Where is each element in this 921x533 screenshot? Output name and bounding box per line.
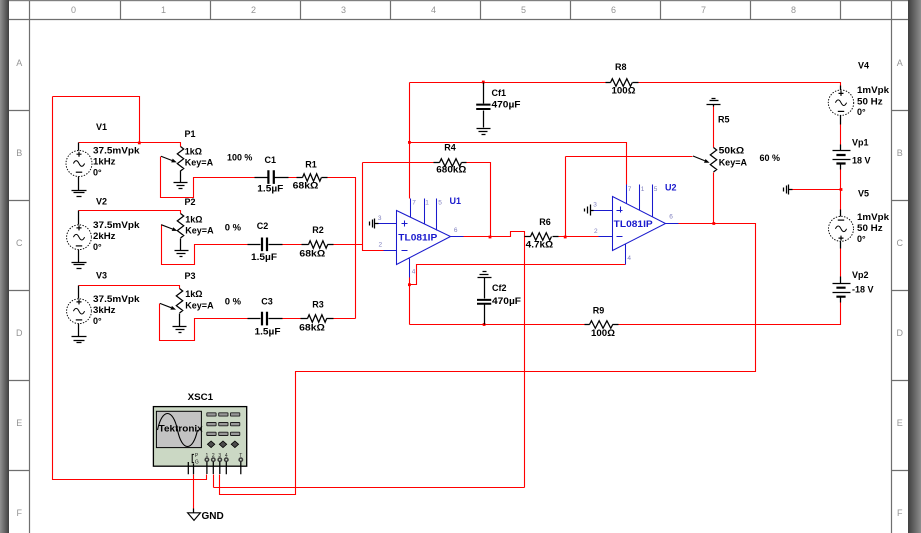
svg-text:470µF: 470µF (492, 296, 522, 306)
svg-text:100 %: 100 % (227, 152, 252, 162)
svg-text:4: 4 (225, 453, 228, 459)
svg-text:R3: R3 (312, 300, 324, 310)
svg-text:7: 7 (412, 199, 416, 206)
svg-text:60 %: 60 % (760, 153, 781, 163)
svg-text:A: A (16, 58, 22, 68)
svg-text:37.5mVpk: 37.5mVpk (93, 146, 141, 156)
svg-text:37.5mVpk: 37.5mVpk (93, 220, 141, 230)
svg-text:5: 5 (521, 5, 526, 15)
svg-text:C3: C3 (261, 296, 273, 306)
svg-text:C1: C1 (265, 155, 277, 165)
svg-text:TL081IP: TL081IP (398, 232, 437, 242)
svg-text:Vp2: Vp2 (852, 270, 869, 280)
svg-text:F: F (897, 508, 903, 518)
svg-text:0°: 0° (93, 316, 102, 326)
svg-text:E: E (16, 418, 22, 428)
svg-text:2kHz: 2kHz (93, 231, 116, 241)
svg-text:68kΩ: 68kΩ (299, 248, 325, 258)
svg-text:4: 4 (412, 268, 416, 275)
svg-text:3: 3 (593, 201, 597, 208)
svg-text:1kΩ: 1kΩ (185, 147, 202, 157)
svg-text:R4: R4 (444, 143, 456, 153)
svg-text:5: 5 (654, 186, 658, 193)
svg-text:1kΩ: 1kΩ (185, 214, 202, 224)
svg-text:D: D (16, 328, 23, 338)
svg-text:TL081IP: TL081IP (614, 219, 653, 229)
svg-text:U2: U2 (665, 183, 677, 193)
svg-text:0 %: 0 % (225, 297, 241, 307)
svg-text:3: 3 (341, 5, 346, 15)
svg-text:1: 1 (425, 199, 429, 206)
svg-text:1.5µF: 1.5µF (257, 184, 284, 194)
svg-text:Key=A: Key=A (719, 158, 748, 168)
svg-text:P2: P2 (185, 197, 196, 207)
svg-text:V4: V4 (858, 61, 869, 71)
svg-text:1.5µF: 1.5µF (251, 252, 278, 262)
svg-text:68kΩ: 68kΩ (299, 322, 325, 332)
svg-text:R6: R6 (539, 217, 551, 227)
svg-text:7: 7 (628, 186, 632, 193)
svg-text:D: D (897, 328, 904, 338)
svg-text:R1: R1 (305, 160, 317, 170)
svg-text:R5: R5 (718, 115, 730, 125)
svg-text:R8: R8 (615, 62, 627, 72)
svg-text:6: 6 (669, 214, 673, 221)
svg-text:3: 3 (378, 215, 382, 222)
svg-text:50kΩ: 50kΩ (719, 145, 745, 155)
svg-text:U1: U1 (450, 196, 462, 206)
svg-text:Key=A: Key=A (185, 300, 214, 310)
svg-text:2: 2 (379, 242, 383, 249)
svg-text:V3: V3 (96, 271, 107, 281)
svg-text:C: C (897, 238, 904, 248)
svg-text:7: 7 (701, 5, 706, 15)
svg-text:1: 1 (641, 186, 645, 193)
svg-text:1mVpk: 1mVpk (857, 212, 890, 222)
svg-text:XSC1: XSC1 (188, 392, 214, 402)
svg-text:V5: V5 (858, 188, 869, 198)
svg-text:GND: GND (202, 511, 224, 522)
svg-text:Key=A: Key=A (185, 158, 214, 168)
svg-text:8: 8 (791, 5, 796, 15)
svg-text:0°: 0° (857, 234, 866, 244)
svg-text:0°: 0° (93, 242, 102, 252)
svg-text:3kHz: 3kHz (93, 305, 116, 315)
svg-text:68kΩ: 68kΩ (293, 180, 319, 190)
svg-text:1: 1 (206, 453, 209, 459)
svg-text:V1: V1 (96, 122, 107, 132)
svg-text:1mVpk: 1mVpk (857, 85, 890, 95)
svg-text:18 V: 18 V (852, 156, 871, 166)
svg-text:Cf2: Cf2 (492, 283, 507, 293)
svg-text:2: 2 (212, 453, 215, 459)
svg-text:1.5µF: 1.5µF (255, 326, 282, 336)
svg-text:Tektronix: Tektronix (159, 424, 204, 434)
svg-text:P1: P1 (185, 129, 196, 139)
svg-text:1: 1 (161, 5, 166, 15)
svg-text:R9: R9 (593, 305, 605, 315)
svg-text:1kHz: 1kHz (93, 157, 116, 167)
svg-text:1kΩ: 1kΩ (185, 289, 202, 299)
svg-text:4: 4 (431, 5, 436, 15)
svg-text:680kΩ: 680kΩ (436, 164, 466, 174)
svg-text:100Ω: 100Ω (591, 328, 615, 338)
svg-text:37.5mVpk: 37.5mVpk (93, 294, 141, 304)
svg-text:E: E (897, 418, 903, 428)
svg-text:2: 2 (251, 5, 256, 15)
svg-text:5: 5 (438, 199, 442, 206)
svg-text:Cf1: Cf1 (492, 88, 507, 98)
svg-text:6: 6 (454, 227, 458, 234)
svg-text:B: B (16, 148, 22, 158)
svg-text:-18 V: -18 V (852, 285, 874, 295)
svg-text:0°: 0° (93, 168, 102, 178)
svg-text:V2: V2 (96, 197, 107, 207)
svg-text:G: G (195, 460, 199, 466)
svg-text:6: 6 (611, 5, 616, 15)
svg-text:A: A (897, 58, 903, 68)
svg-text:100Ω: 100Ω (612, 86, 636, 96)
svg-text:2: 2 (594, 228, 598, 235)
svg-text:Vp1: Vp1 (852, 137, 869, 147)
svg-text:0: 0 (71, 5, 76, 15)
svg-text:C2: C2 (257, 221, 269, 231)
svg-text:C: C (16, 238, 23, 248)
svg-text:0°: 0° (857, 107, 866, 117)
svg-text:4: 4 (627, 255, 631, 262)
svg-text:0 %: 0 % (225, 223, 241, 233)
svg-text:F: F (17, 508, 23, 518)
svg-text:P3: P3 (185, 271, 196, 281)
svg-text:Key=A: Key=A (185, 225, 214, 235)
svg-text:3: 3 (218, 453, 221, 459)
svg-text:4.7kΩ: 4.7kΩ (526, 240, 553, 250)
svg-text:50 Hz: 50 Hz (857, 96, 883, 106)
svg-text:B: B (897, 148, 903, 158)
svg-text:470µF: 470µF (492, 100, 522, 110)
svg-text:T: T (239, 453, 242, 459)
svg-text:50 Hz: 50 Hz (857, 223, 883, 233)
svg-text:R2: R2 (312, 225, 324, 235)
